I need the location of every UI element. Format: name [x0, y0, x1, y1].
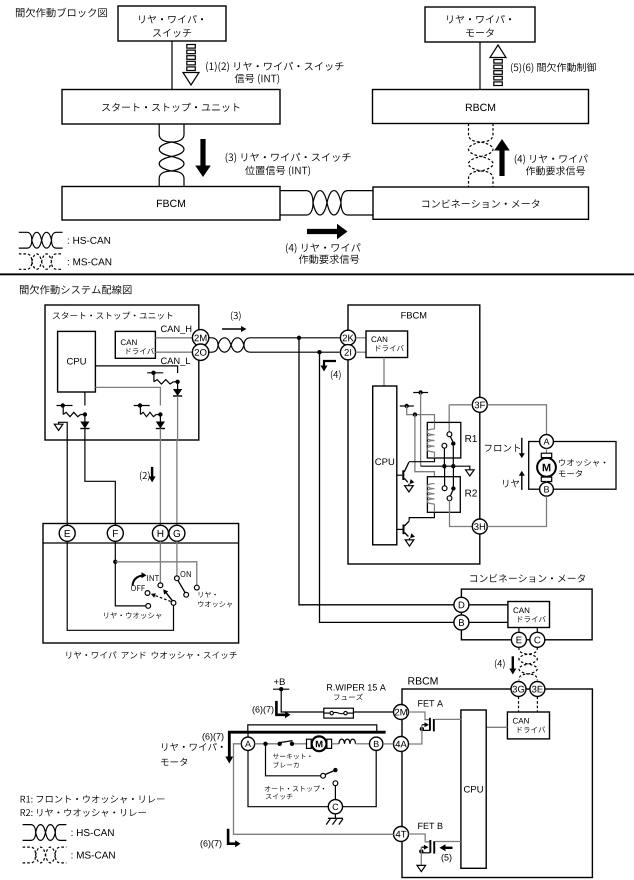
connector G: [169, 525, 185, 541]
junction dot breaker left: [278, 742, 282, 746]
wire R2 NO down: [452, 466, 454, 486]
circuit breaker blade: [281, 741, 293, 743]
label CAN driver (FBCM): [371, 336, 387, 342]
junction dot breaker right: [290, 742, 294, 746]
stub node B (coil supply): [400, 405, 414, 407]
label start-stop unit: [102, 103, 239, 112]
junction dot CAN_H bus: [297, 336, 301, 340]
rotation arc arrow: [133, 576, 144, 586]
section divider: [0, 273, 634, 275]
label auto-stop switch: [265, 786, 325, 792]
transistor Q1: [402, 470, 404, 480]
block: rear wiper motor box: [425, 7, 535, 42]
relay R1 common contact: [447, 432, 452, 437]
diode left: [80, 422, 89, 429]
ground below C: [334, 814, 336, 819]
arrow (5) left: [445, 847, 453, 849]
label RBCM: [466, 104, 495, 111]
label combination meter: [422, 199, 539, 208]
wire stub B to R1 coil: [407, 406, 435, 422]
contact ON: [175, 576, 180, 581]
wire driver to CPU (RBCM): [486, 726, 507, 728]
contact INT: [158, 583, 163, 588]
wire CPU to CAN_L node: [95, 366, 177, 373]
label (6)(7) top: [253, 706, 274, 714]
label rear: [503, 479, 519, 487]
label rear wiper switch: [139, 15, 203, 23]
FET B symbol: [429, 840, 431, 853]
block: FBCM (wiring): [348, 305, 480, 564]
label (6)(7) mid: [203, 733, 224, 741]
wire B to driver: [469, 621, 508, 623]
MS-CAN pair meter to RBCM: [519, 647, 537, 680]
label ON: [180, 571, 190, 577]
arrow (4) meter down: [512, 656, 514, 668]
label circuit breaker: [273, 753, 311, 759]
legend MS-CAN text: [68, 258, 111, 265]
junction dot A1: [263, 742, 267, 746]
junction dot FET B source: [419, 849, 423, 853]
connector H: [152, 525, 168, 541]
relay R1 NC contact: [442, 443, 447, 448]
contact left washer: [146, 604, 151, 609]
block: combination meter box: [373, 187, 589, 219]
relay R2 box: [427, 477, 460, 513]
relay R1 blade: [450, 436, 453, 441]
title: wiring diagram: [20, 285, 131, 295]
label FET A: [418, 700, 443, 706]
label (4) request signal bottom: [286, 243, 360, 253]
resistor network left: [57, 405, 73, 407]
block: rear wiper switch box: [118, 6, 226, 41]
label fuse name: [327, 684, 386, 690]
dashed wire 3G to driver: [518, 697, 520, 713]
resistor network mid: [134, 405, 150, 407]
CAN driver box (unit): [115, 331, 155, 358]
title: block diagram: [16, 8, 107, 18]
label rear wiper motor: [447, 15, 511, 23]
label (5): [442, 854, 452, 862]
connector B (meter): [454, 615, 469, 630]
junction dot F: [113, 560, 117, 564]
connector 2K: [340, 330, 355, 345]
rear wiper motor M: [307, 739, 312, 748]
contact washer blade end: [184, 592, 189, 597]
wire FET A gate to CPU: [435, 718, 461, 720]
wire 3F to washer A: [487, 405, 546, 435]
CPU box (FBCM): [373, 386, 397, 545]
wire 2M to FET A: [409, 712, 430, 720]
CPU box (unit): [58, 331, 96, 392]
wire 3F left: [449, 404, 472, 406]
wire driver to CPU (FBCM): [383, 358, 385, 387]
wire B to 4A: [383, 743, 394, 745]
label FET B: [418, 823, 442, 829]
connector A (washer): [540, 435, 554, 449]
relay R2 coil: [427, 484, 434, 504]
arrow (2) down: [151, 467, 153, 478]
legend HS-CAN text bottom: [72, 829, 114, 836]
ground Q1: [405, 486, 414, 492]
arrow (4) right: [307, 224, 348, 239]
switch blade washer: [178, 580, 186, 593]
transistor Q2: [403, 525, 405, 535]
label CPU (FBCM): [375, 458, 394, 465]
wire fuse to 2M (RBCM): [353, 711, 393, 713]
stub node A (relay supply): [413, 392, 428, 394]
label +B: [274, 678, 285, 685]
wire A loop to C: [248, 751, 328, 807]
dashed wire 3E to driver: [536, 697, 538, 713]
wire Q2 emitter to gnd: [409, 538, 411, 540]
block: start-stop unit box: [62, 90, 280, 125]
washer motor box: [529, 442, 616, 490]
wire CPU bottom to F net: [84, 392, 86, 406]
wire 4T to FET B: [409, 834, 430, 842]
relay R1 coil: [434, 422, 436, 429]
transistor Q1 base wire: [397, 474, 403, 476]
connector 3F: [472, 397, 487, 412]
wire stub A to contact line: [420, 393, 422, 467]
label (1)(2) signal: [206, 62, 343, 72]
label (2): [140, 471, 150, 481]
HS-CAN bus 2M/2O to 2K/2I: [208, 338, 339, 352]
wire diode to F: [85, 429, 115, 526]
wire CAN_L to meter B: [320, 352, 454, 622]
wire R1 NO down: [452, 446, 454, 466]
fuse R.WIPER 15A: [324, 708, 354, 718]
wire F to right washer contact: [115, 562, 197, 585]
legend HS-CAN symbol: [19, 232, 63, 248]
wire R2 NC down: [444, 466, 446, 486]
wire diode to H: [159, 429, 161, 526]
connector A (motor): [241, 737, 254, 750]
switch blade OFF dashed: [154, 595, 171, 602]
wire dot C to R2 coil: [415, 415, 435, 477]
label (4) request signal right: [515, 154, 588, 164]
connector 2M (unit): [192, 330, 208, 346]
junction dot CAN_L bus: [317, 350, 321, 354]
resistor network CAN_L: [147, 372, 163, 374]
contact OFF: [145, 591, 150, 596]
connector 3E: [530, 682, 545, 697]
junction dot contact line 2: [451, 464, 455, 468]
block: RBCM (wiring): [402, 689, 592, 878]
block: FBCM box: [62, 187, 280, 221]
wire R1 NC down: [443, 448, 445, 466]
auto-stop blade dot: [333, 768, 337, 772]
arrow (6)(7) top: [276, 701, 285, 715]
label FBCM (wiring): [401, 312, 426, 319]
wire motor to RBCM: [479, 42, 481, 90]
connector 3H: [472, 519, 487, 534]
relay R2 NC contact: [442, 486, 447, 491]
label FBCM: [157, 200, 185, 207]
label (3) position signal: [226, 153, 351, 163]
CAN driver box (meter): [508, 602, 550, 628]
label start-stop unit (wiring): [53, 312, 173, 320]
arrow (6)(7) bottom: [228, 829, 235, 844]
arrow (3) down: [195, 139, 211, 177]
connector 2I: [340, 345, 355, 360]
label CPU (unit): [67, 358, 86, 365]
washer motor M: [546, 448, 548, 453]
label OFF: [131, 585, 145, 591]
MS-CAN twisted pair RBCM to combination meter: [469, 124, 494, 188]
wire FET B to ground: [420, 847, 422, 865]
connector B (washer): [540, 482, 554, 496]
label rear washer bottom: [104, 612, 161, 619]
wire B loop to C: [343, 751, 377, 807]
legend HS-CAN symbol bottom: [23, 825, 67, 841]
striped arrow (1)(2) down: [187, 45, 196, 49]
junction dot contact line 1: [442, 464, 446, 468]
wire FET B gate to CPU: [435, 841, 461, 843]
switch box header line: [43, 542, 239, 544]
wire driver to C: [536, 628, 538, 633]
arrow (4) at 2I: [324, 361, 336, 367]
label (4) at 2I: [331, 370, 341, 380]
connector 2M (RBCM): [394, 705, 409, 720]
shield triangle (contact line): [466, 470, 475, 476]
legend MS-CAN symbol bottom: [23, 847, 67, 863]
block: combination meter (wiring): [461, 589, 592, 640]
legend MS-CAN symbol: [19, 254, 63, 269]
wire 3F to R1 contact: [448, 405, 450, 432]
arrow rear up: [521, 475, 523, 490]
label CAN_L: [161, 358, 190, 366]
diode CAN_L: [173, 389, 182, 396]
connector D: [454, 597, 469, 612]
auto-stop contact lower: [333, 781, 338, 786]
label CAN driver (meter): [513, 607, 529, 613]
wire driver to E: [518, 628, 520, 633]
wire 2K to driver: [356, 337, 366, 339]
shield triangle (unit): [54, 424, 63, 430]
arrow (4) up: [494, 139, 510, 176]
relay R1 NO contact dot: [451, 441, 455, 445]
contact right washer: [194, 585, 199, 590]
legend MS-CAN text bottom: [72, 852, 115, 859]
connector 2O (unit): [192, 344, 208, 360]
wire A to breaker: [255, 743, 280, 745]
transistor Q2 base wire: [397, 528, 403, 530]
connector F: [107, 525, 123, 541]
wire Q1 emitter to gnd: [408, 484, 410, 486]
connector E (meter): [511, 632, 526, 647]
label (6)(7) bottom: [201, 840, 222, 848]
wire F down: [114, 541, 116, 562]
label INT: [147, 575, 159, 581]
wire CAN_H to meter D: [299, 338, 454, 605]
arrow (3) right small: [222, 328, 242, 330]
wire D to driver: [469, 604, 508, 606]
wire switch to start-stop unit: [171, 41, 173, 90]
block: RBCM box: [373, 90, 589, 124]
wire CAN driver to 2O: [155, 351, 193, 353]
contact common line: [421, 466, 470, 470]
label (3) bus: [231, 311, 241, 321]
label rear wiper motor (wiring): [162, 743, 223, 751]
label R1: [465, 435, 476, 442]
striped arrow (5)(6) up: [494, 60, 503, 64]
label RBCM (wiring): [408, 677, 437, 684]
HS-CAN twisted pair unit to FBCM: [159, 124, 184, 187]
wire CPU to H net: [95, 387, 160, 405]
wire R1 coil to Q1: [409, 458, 435, 462]
wire +B to fuse: [281, 689, 324, 712]
pivot contact: [171, 601, 176, 606]
tick A to feed: [247, 732, 249, 737]
junction dot C: [413, 412, 417, 416]
connector C (meter): [530, 632, 545, 647]
label rear washer right: [199, 592, 216, 598]
label CAN driver (unit): [121, 339, 137, 345]
wire H down: [159, 541, 161, 583]
wire G down: [176, 541, 178, 576]
connector 3G: [511, 682, 526, 697]
FET A symbol: [429, 718, 431, 731]
legend R2: [21, 809, 146, 817]
wire left node to diode: [84, 415, 86, 422]
bold feed line: [229, 732, 385, 757]
block: start-stop unit (wiring): [45, 305, 199, 440]
label (4) meter: [495, 659, 505, 669]
HS-CAN twisted pair FBCM to combination meter: [280, 191, 373, 215]
label fuse katakana: [334, 694, 363, 701]
relay R1 box: [427, 422, 461, 458]
wire CAN driver to 2M: [155, 337, 193, 339]
block: wiper washer switch: [43, 524, 239, 644]
wire node to diode: [177, 382, 179, 389]
relay R2 common contact: [447, 496, 452, 501]
CPU box (RBCM): [461, 710, 486, 868]
label (5)(6) control: [511, 63, 596, 73]
wire auto-stop to C: [334, 785, 336, 799]
wire E loop to pivot: [67, 541, 173, 630]
inductor (motor): [332, 743, 339, 745]
wire A to 4T: [234, 744, 394, 835]
label R2: [465, 490, 476, 497]
junction dot FET A source: [420, 727, 424, 731]
label CAN_H: [161, 326, 191, 334]
label CAN driver (RBCM): [513, 718, 529, 724]
CAN driver box (FBCM): [366, 331, 408, 358]
auto-stop contact left: [321, 773, 326, 778]
power tick +B: [273, 688, 289, 690]
relay R2 NO contact dot: [451, 486, 455, 490]
connector E: [59, 525, 75, 541]
switch blade main: [165, 591, 173, 601]
ground FET B: [417, 865, 426, 871]
wire F to left washer contact: [115, 562, 146, 606]
label washer motor: [559, 459, 605, 467]
connector B (motor): [370, 737, 383, 750]
caption wiper washer switch: [66, 651, 236, 659]
relay R2 blade: [450, 491, 452, 497]
wire R2 common to 3H: [450, 500, 473, 526]
wire mid node to diode: [159, 415, 161, 422]
diode mid: [156, 422, 165, 429]
motor assembly bracket: [248, 725, 377, 731]
connector C (motor): [328, 800, 342, 814]
wire washer B to 3H: [487, 496, 546, 526]
connector 4A: [394, 737, 409, 752]
connector 4T: [394, 827, 409, 842]
wire FET A to 4A: [409, 725, 422, 744]
legend R1: [21, 795, 165, 803]
ground Q2: [405, 540, 414, 546]
label combination meter (wiring): [470, 574, 585, 583]
arrow front down: [521, 438, 523, 454]
wire shield to E: [59, 422, 68, 525]
label front: [485, 444, 520, 452]
CAN driver box (RBCM): [507, 712, 549, 739]
wire R2 coil to Q2: [409, 512, 434, 520]
label CPU (RBCM): [464, 786, 483, 793]
wire diode to G: [177, 396, 179, 440]
wire 2I to driver: [356, 351, 366, 353]
legend HS-CAN text: [68, 237, 110, 244]
wire to auto-stop switch: [266, 744, 321, 776]
auto-stop blade: [325, 771, 334, 775]
